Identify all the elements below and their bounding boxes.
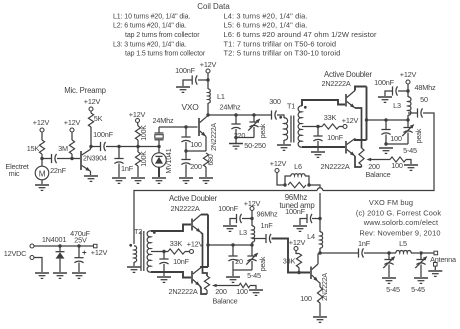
wire trimmer out2 to ground [420, 265, 422, 278]
transformer T2 primary [134, 246, 137, 266]
label 680 [208, 154, 215, 165]
wire 96Mhz feed to base [272, 239, 311, 273]
svg-text:L1: 10 turns #20, 1/4" dia.: L1: 10 turns #20, 1/4" dia. [113, 14, 190, 21]
ground 680 [199, 178, 213, 183]
wire tank1 to collector bus [367, 119, 409, 121]
collector bus doubler2 [207, 215, 209, 268]
label 220 [234, 131, 246, 140]
collector bus doubler1 [366, 87, 368, 141]
transistor Q6 2N2222A doubler2 bottom [192, 267, 208, 286]
label 100 amp [300, 294, 312, 303]
wire 100 cap to node [185, 142, 187, 151]
wire 5K to collector node [90, 127, 92, 146]
label 20 tank2 [235, 257, 243, 266]
svg-text:Active Doubler: Active Doubler [324, 70, 373, 79]
svg-text:peak: peak [416, 128, 423, 143]
svg-text:M: M [39, 170, 46, 179]
resistor 100K lower [135, 152, 140, 166]
label +12V 5K [84, 97, 101, 106]
svg-text:33K: 33K [170, 239, 183, 248]
label 2N2222A amp [322, 273, 329, 301]
electret mic M1 [35, 159, 49, 184]
ground tank1 [379, 148, 393, 153]
label 2N2222A vxo [211, 123, 218, 151]
label 10nF doubler2 [173, 257, 190, 266]
svg-text:+12V: +12V [187, 240, 204, 249]
capacitor 1nF tank2 out [252, 234, 271, 243]
label 100nF tank2 [218, 204, 238, 213]
wire 100nF to ground [183, 80, 192, 86]
wire 220 to rail [235, 129, 237, 138]
label +12V doubler2 [187, 240, 204, 249]
node 10nF doubler1 [316, 125, 319, 128]
svg-text:100: 100 [190, 140, 202, 149]
label 50-250 [244, 141, 266, 150]
svg-text:peak: peak [260, 256, 267, 271]
node 10nF doubler2 [162, 250, 165, 253]
svg-text:+12V: +12V [342, 116, 359, 125]
wire node to 100K lower [137, 147, 139, 153]
svg-text:100nF: 100nF [374, 78, 394, 87]
resistor 100 amp [317, 287, 322, 303]
svg-text:5-45: 5-45 [386, 285, 400, 294]
svg-text:1nF: 1nF [121, 164, 134, 173]
capacitor 10nF doubler2 [159, 252, 168, 265]
label 470uF [70, 229, 90, 238]
label 33K doubler2 [170, 239, 183, 248]
wire trimmer tank2 down [251, 261, 253, 270]
wire trimmer tank1 down [407, 133, 409, 145]
wire 33K to +12V [339, 126, 343, 128]
terminal +12V out [94, 244, 98, 248]
wire 1nF to ground [118, 164, 120, 178]
wire T1 bottom tap to base [302, 146, 345, 148]
capacitor 470uF [74, 246, 86, 272]
terminal +12V vxo top [206, 69, 210, 73]
node doubler1 collector [365, 118, 368, 121]
capacitor 100nF tank1 [393, 86, 398, 95]
wire 15K to mic node [41, 154, 43, 159]
label 2N2222A doubler2 bottom [168, 287, 197, 296]
wire tank2 to collector bus [208, 244, 252, 246]
wire wiper2 to 100 [220, 285, 239, 287]
wire crystal to base [159, 126, 198, 128]
node mic [40, 157, 43, 160]
wire tank2 rail [233, 269, 252, 271]
terminal antenna ground [434, 263, 438, 267]
svg-text:100: 100 [236, 287, 248, 296]
wire 3M to base node [71, 154, 73, 159]
label 1nF tank2 [261, 221, 274, 230]
label 50 [420, 95, 428, 104]
svg-text:50: 50 [420, 95, 428, 104]
ground 1nF [112, 178, 126, 183]
wire 200 cap to ground [185, 165, 187, 178]
wire 100 to ground [406, 160, 411, 165]
terminal 12VDC - [30, 256, 34, 260]
ground 10nF doubler2 [157, 277, 171, 282]
label 1nF vxo [121, 164, 134, 173]
label 2N2222A doubler1 top [321, 79, 350, 88]
ground balance2 [249, 290, 263, 295]
inductor L3 tank1 [408, 97, 411, 115]
node tank rail [234, 136, 237, 139]
svg-text:VXO FM bug: VXO FM bug [369, 198, 413, 207]
wire 100 amp to ground [319, 303, 321, 316]
wire rail to ground [235, 138, 237, 144]
resistor 15K [39, 140, 44, 154]
label +12V doubler1 [342, 116, 359, 125]
label L3 tank1 [393, 101, 401, 110]
label 100 balance2 [236, 287, 248, 296]
label 200 balance2 [215, 287, 227, 296]
svg-text:Mic. Preamp: Mic. Preamp [64, 86, 106, 95]
wire Q3 emitter to pot [355, 108, 362, 148]
label +12V amp [289, 238, 306, 247]
label 12VDC [4, 249, 27, 258]
label 1nF out [358, 239, 371, 248]
svg-text:100nF: 100nF [285, 207, 305, 216]
capacitor 20 tank2 [228, 245, 237, 261]
wire +12V to 5K [90, 111, 92, 113]
svg-text:T1: 7 turns trifilar on T50-6: T1: 7 turns trifilar on T50-6 toroid [224, 40, 337, 49]
svg-text:L4: L4 [307, 232, 315, 241]
wire 100K lower to ground [137, 166, 139, 177]
wire Q6 emitter to pot [200, 286, 207, 294]
transistor Q7 2N2222A amp [311, 253, 320, 282]
ground trimmer out1 [382, 278, 396, 283]
transistor Q4 2N2222A doubler1 bottom [346, 139, 367, 157]
coil data T2 line [224, 49, 341, 58]
capacitor 100nF vxo bypass [192, 75, 197, 84]
trimmer capacitor 5-45 out1 [383, 253, 395, 268]
ground T1 primary [277, 145, 291, 150]
wire 10nF doubler2 to ground [163, 264, 165, 276]
label 300 [269, 97, 281, 106]
label T1 [287, 102, 295, 111]
label 100nF amp [285, 207, 305, 216]
resistor 33K doubler2 [168, 249, 185, 254]
phase dot T2 primary [129, 244, 132, 247]
coil data L2 tap line [125, 32, 200, 39]
ground balance1 [404, 165, 418, 170]
svg-text:20: 20 [235, 257, 243, 266]
label 96Mhz small [257, 210, 278, 219]
section title Mic. Preamp [64, 86, 106, 95]
svg-text:2N2222A: 2N2222A [170, 204, 199, 213]
svg-text:Balance: Balance [366, 170, 391, 179]
potentiometer 200 balance2 [204, 276, 209, 294]
label 200 vxo [190, 162, 202, 171]
ground diode D1 [53, 273, 67, 278]
svg-text:Rev: November 9, 2010: Rev: November 9, 2010 [359, 229, 440, 238]
wire +12V to R 15K [41, 132, 43, 140]
label 33K doubler1 [324, 113, 337, 122]
resistor 3M [69, 140, 74, 154]
section title Active Doubler 2 [169, 194, 218, 203]
inductor L5 [389, 251, 419, 253]
node cap C+ top [77, 244, 80, 247]
capacitor 10nF doubler1 [313, 127, 322, 142]
terminal +12V vxo [136, 119, 140, 123]
svg-text:33K: 33K [283, 257, 296, 266]
wire antenna gnd [434, 266, 436, 270]
svg-text:L3: L3 [239, 228, 247, 237]
svg-text:5K: 5K [94, 114, 103, 123]
node 1nF [117, 145, 120, 148]
node emitter row [184, 149, 187, 152]
label 100nF tank1 [374, 78, 394, 87]
ground antenna [428, 271, 442, 276]
label 2N2222A doubler1 bottom [320, 162, 349, 171]
node L6 right [307, 183, 310, 186]
capacitor 22nF [52, 154, 57, 163]
wire 33K amp to base node [298, 268, 300, 273]
coil data L1 line [113, 14, 190, 21]
svg-text:L3: L3 [393, 101, 401, 110]
svg-text:2N2222A: 2N2222A [211, 123, 218, 151]
node collector Q1 [89, 145, 92, 148]
coil data L3 line [113, 42, 187, 49]
terminal +12V 5K [89, 107, 93, 111]
node amp base [297, 271, 300, 274]
capacitor 100nF amp [307, 214, 312, 223]
wire L1 top to 100nF [198, 79, 208, 81]
label 100K lower [141, 151, 148, 167]
transformer T2 secondary [147, 231, 151, 272]
label peak tank1 [416, 128, 423, 143]
svg-text:mic: mic [9, 169, 20, 178]
ground mic [35, 185, 49, 190]
wire 48Mhz feed [323, 113, 434, 191]
crystal Y1 24Mhz [155, 127, 164, 147]
label 1N4001 [42, 235, 67, 244]
label +12V tank2 [244, 199, 261, 208]
ground 100nF tank2 [223, 226, 237, 231]
svg-text:48Mhz: 48Mhz [415, 83, 436, 92]
transformer T1 core [291, 116, 294, 143]
svg-text:300: 300 [269, 97, 281, 106]
svg-text:5-45: 5-45 [247, 271, 261, 280]
label +12V out [91, 248, 108, 257]
terminal antenna [434, 251, 438, 255]
label MV1041 [166, 148, 173, 173]
terminal +12V tank2 [250, 207, 254, 211]
svg-text:96Mhz: 96Mhz [257, 210, 278, 219]
node 100 cap top [184, 125, 187, 128]
svg-text:L5: L5 [399, 239, 407, 248]
node crystal varactor [157, 145, 160, 148]
section title Active Doubler 1 [324, 70, 373, 79]
svg-text:3M: 3M [58, 144, 68, 153]
node vxo collector [206, 113, 209, 116]
node 50-250 trimmer [252, 113, 255, 116]
svg-text:+12V: +12V [84, 97, 101, 106]
ground vxo tank [229, 144, 243, 149]
svg-text:15K: 15K [27, 144, 40, 153]
title copyright [356, 209, 441, 218]
terminal +12V amp [294, 247, 298, 251]
svg-text:100nF: 100nF [175, 66, 195, 75]
svg-text:+12V: +12V [33, 118, 50, 127]
wire 100 tank1 down [385, 135, 387, 145]
label 100K upper [141, 125, 148, 141]
label L6 [294, 162, 302, 171]
label 22nF [50, 166, 67, 175]
label 2N3904 [83, 155, 107, 163]
label 5-45 out1 [386, 285, 400, 294]
svg-text:1N4001: 1N4001 [42, 235, 67, 244]
wire Q4 emitter to pot [355, 156, 362, 167]
label peak 50-250 [260, 123, 267, 138]
node doubler2 collector [206, 243, 209, 246]
trimmer capacitor 5-45 tank1 [402, 120, 414, 136]
svg-text:200: 200 [190, 162, 202, 171]
wire hop over L6 feed [317, 188, 323, 191]
terminal +12V doubler2 [190, 250, 194, 254]
svg-text:L6: L6 [294, 162, 302, 171]
wire 48Mhz line left [134, 191, 317, 245]
svg-text:100: 100 [300, 294, 312, 303]
section title 96Mhz [285, 193, 308, 202]
capacitor 1nF out [359, 248, 364, 257]
ground 10nF doubler1 [311, 152, 325, 157]
label 33K amp [283, 257, 296, 266]
svg-text:2N2222A: 2N2222A [321, 79, 350, 88]
label 100 tank1 [390, 134, 402, 143]
wire down to 1nF [118, 147, 120, 159]
label Balance 2 [213, 297, 238, 306]
wire L3 to node [407, 115, 409, 120]
svg-text:2N2222A: 2N2222A [168, 287, 197, 296]
capacitor 1nF vxo [114, 159, 123, 164]
svg-text:5-45: 5-45 [403, 146, 417, 155]
resistor 100K upper [135, 126, 140, 140]
svg-text:680: 680 [208, 154, 215, 165]
ground emitter Q1 [84, 176, 98, 181]
label 10nF doubler1 [327, 133, 344, 142]
ground 12VDC - [35, 273, 49, 278]
node base 2N3904 [70, 157, 73, 160]
terminal +12V 3M [70, 128, 74, 132]
capacitor 220 [231, 115, 240, 129]
coil data L5 line [224, 21, 308, 30]
node amp bypass [318, 217, 321, 220]
wire T1 center tap [302, 126, 318, 128]
capacitor 50 output [408, 108, 423, 117]
label L3 tank2 [239, 228, 247, 237]
wire bypass to 100nF [398, 90, 408, 92]
resistor 33K doubler1 [318, 124, 339, 129]
capacitor 200 vxo [181, 160, 190, 165]
svg-text:L1: L1 [217, 92, 225, 101]
svg-text:100nF: 100nF [218, 204, 238, 213]
svg-text:VXO: VXO [181, 102, 199, 112]
svg-text:peak: peak [260, 123, 267, 138]
label 5-45 tank2 [247, 271, 261, 280]
varactor D2 MV1041 [152, 147, 166, 178]
wire node to 200 cap [185, 151, 187, 160]
svg-text:+12V: +12V [129, 110, 146, 119]
svg-text:10nF: 10nF [173, 257, 190, 266]
wire 12VDC - to ground [34, 258, 42, 273]
svg-text:tap 1.5 turns from collector: tap 1.5 turns from collector [125, 51, 206, 58]
label 5-45 tank1 [403, 146, 417, 155]
node tank2 bypass [250, 217, 253, 220]
ground tank2 [226, 277, 240, 282]
svg-text:24Mhz: 24Mhz [153, 116, 174, 125]
transistor Q1 2N3904 [81, 147, 91, 175]
wiper arrow balance1 [367, 158, 375, 162]
wire 22nF to base [57, 158, 80, 160]
capacitor 300 [272, 110, 277, 119]
ground 100nF amp [293, 226, 307, 231]
ground cap 470uF [72, 273, 86, 278]
wire mic node to 22nF [42, 158, 51, 160]
ground varactor [152, 178, 166, 183]
ground trimmer out2 [414, 278, 428, 283]
wire L4 to collector node [319, 248, 321, 253]
svg-text:+12V: +12V [289, 238, 306, 247]
wire bypass2 to 100nF [242, 218, 252, 220]
wire 1nF out to filter [364, 252, 389, 254]
label +12V vxo top [200, 60, 217, 69]
wire T2 center tap [151, 251, 168, 253]
phase dot T2 secondary [153, 231, 156, 234]
wire trimmer out1 to ground [388, 265, 390, 278]
wire +12V to 100K upper [137, 123, 140, 127]
svg-text:+12V: +12V [91, 248, 108, 257]
label +12V vxo [129, 110, 146, 119]
terminal 12VDC + [30, 244, 34, 248]
node cap 100 tank1 [384, 118, 387, 121]
coil data L2 line [113, 23, 187, 30]
node diode top [58, 244, 61, 247]
wire collector out [320, 252, 358, 254]
svg-text:+12V: +12V [270, 159, 287, 168]
svg-text:2N2222A: 2N2222A [320, 162, 349, 171]
potentiometer 200 balance1 [359, 148, 364, 167]
wire trimmer to rail [253, 127, 255, 138]
label peak tank2 [260, 256, 267, 271]
svg-text:+12V: +12V [64, 118, 81, 127]
label 25V [74, 236, 87, 245]
label 24Mhz out [220, 103, 241, 112]
wire 33K to +12V doubler2 [185, 251, 189, 253]
svg-text:L4: 3 turns #20, 1/4" dia.: L4: 3 turns #20, 1/4" dia. [224, 12, 308, 21]
node tank1 bypass [406, 89, 409, 92]
svg-text:T2: 5 turns trifilar on T30-10: T2: 5 turns trifilar on T30-10 toroid [224, 49, 341, 58]
svg-text:1nF: 1nF [358, 239, 371, 248]
svg-text:200: 200 [215, 287, 227, 296]
wire to antenna [421, 252, 434, 254]
svg-text:+12V: +12V [400, 70, 417, 79]
inductor L6 [285, 174, 309, 185]
resistor 33K amp [296, 254, 301, 268]
label L5 [399, 239, 407, 248]
wire Q5 emitter to pot [201, 233, 207, 277]
svg-text:tap 2 turns from collector: tap 2 turns from collector [125, 32, 200, 39]
coil data L3 tap line [125, 51, 206, 58]
wire tank2 rail to ground [232, 270, 234, 276]
transistor Q5 2N2222A doubler2 top [192, 215, 208, 233]
ground 100nF tank1 [378, 97, 392, 102]
node filter right [419, 251, 422, 254]
transformer T1 secondary [298, 106, 302, 147]
phase dot T1 primary [279, 116, 282, 119]
inductor L4 [320, 232, 323, 248]
wire 680 to ground [205, 167, 207, 177]
